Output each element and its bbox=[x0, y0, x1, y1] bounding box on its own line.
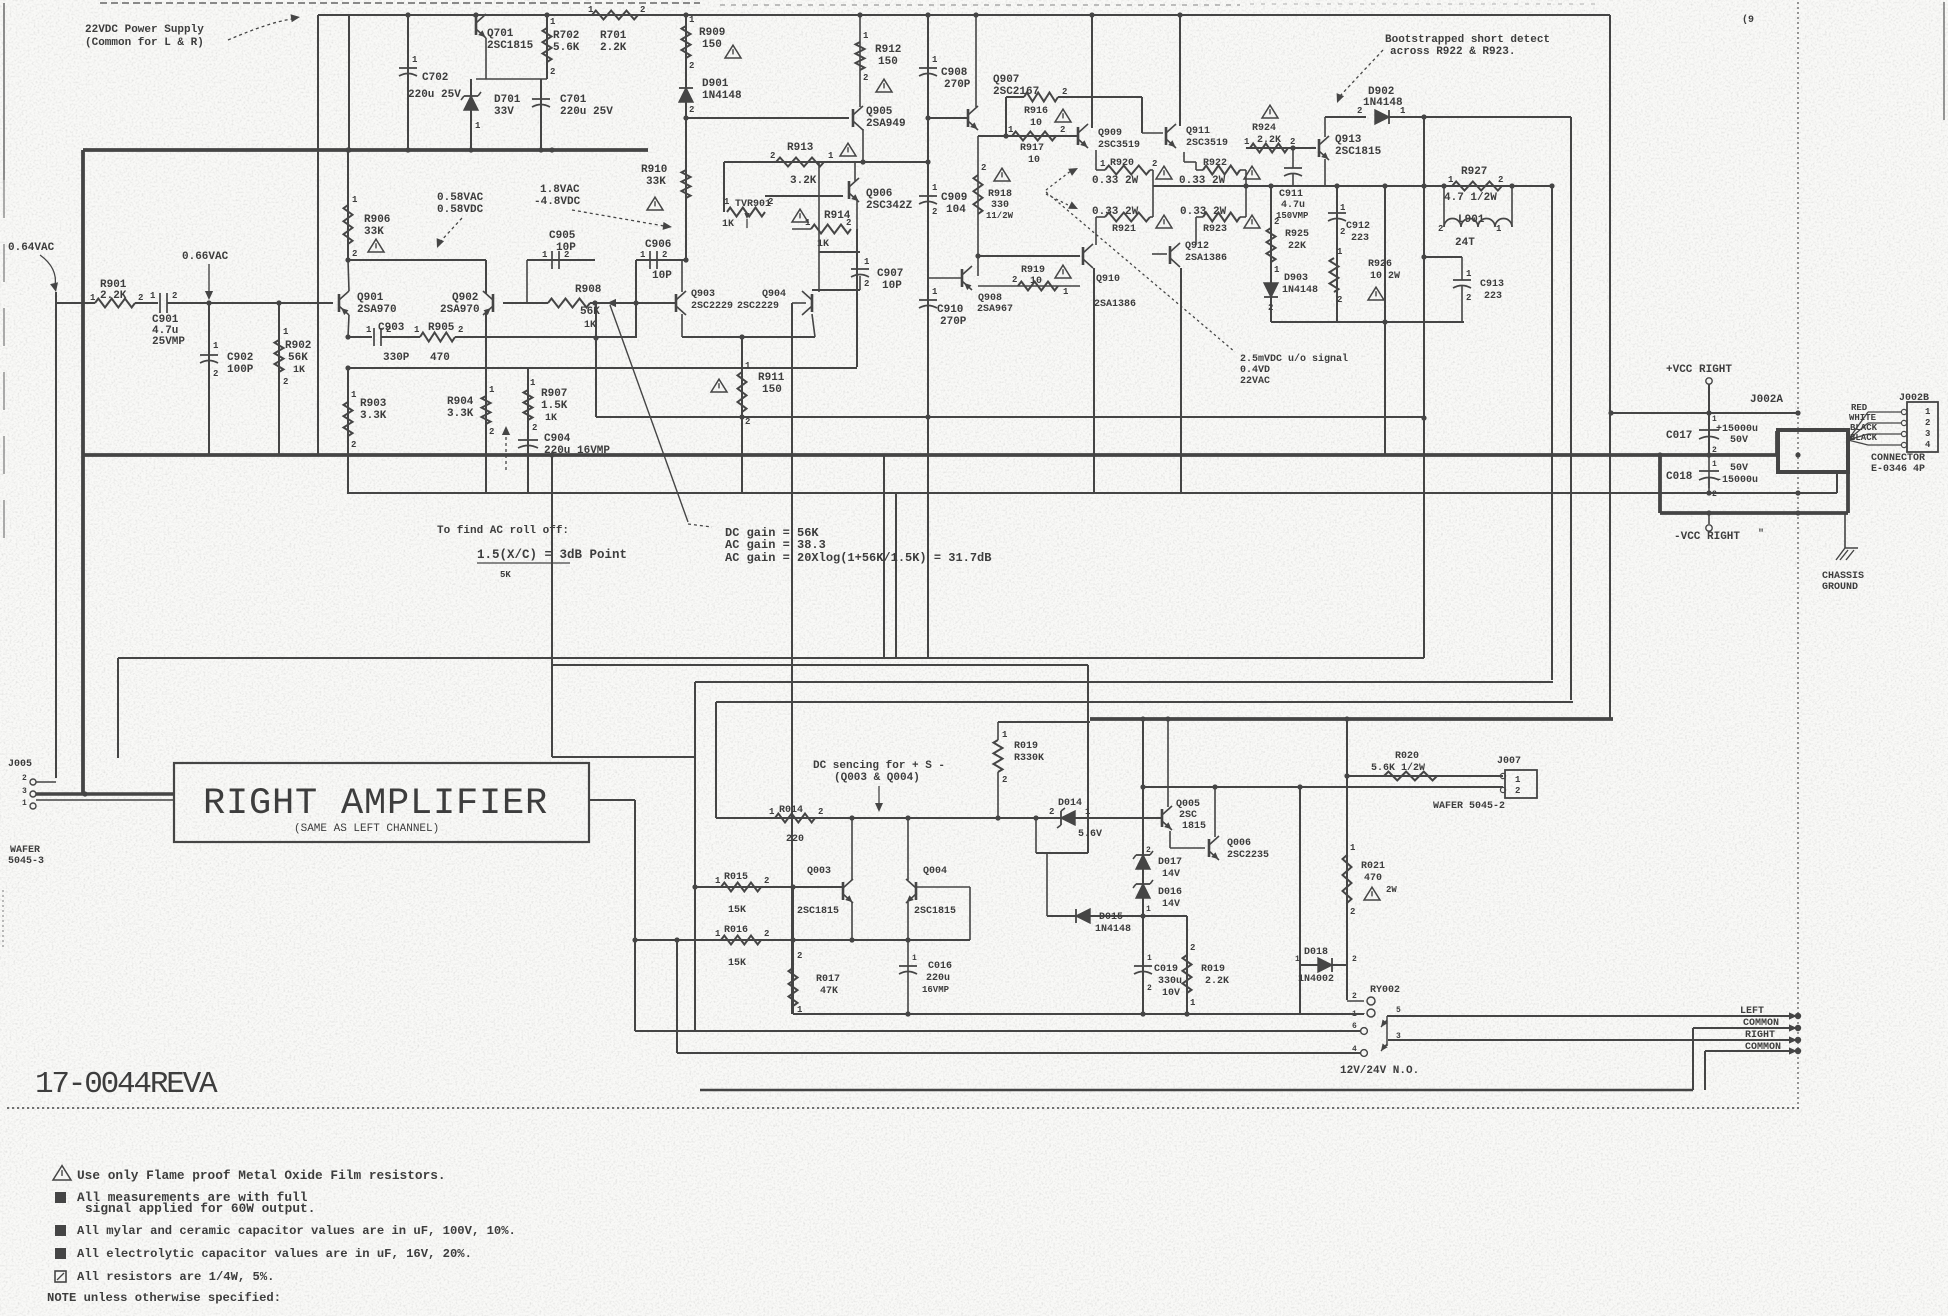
svg-text:104: 104 bbox=[946, 204, 966, 216]
svg-text:Q901: Q901 bbox=[357, 292, 384, 304]
svg-text:Q005: Q005 bbox=[1176, 799, 1200, 810]
svg-text:2: 2 bbox=[640, 5, 645, 15]
svg-text:C017: C017 bbox=[1666, 430, 1692, 442]
svg-text:NOTE unless otherwise specifie: NOTE unless otherwise specified: bbox=[47, 1291, 281, 1305]
svg-text:J002B: J002B bbox=[1899, 393, 1929, 404]
svg-text:Q909: Q909 bbox=[1098, 128, 1122, 139]
svg-text:1N4148: 1N4148 bbox=[1363, 97, 1403, 109]
svg-text:47K: 47K bbox=[820, 986, 838, 997]
svg-text:1: 1 bbox=[1295, 955, 1300, 964]
svg-text:C911: C911 bbox=[1279, 189, 1303, 200]
svg-text:2.5mVDC u/o signal: 2.5mVDC u/o signal bbox=[1240, 353, 1348, 365]
svg-text:+15000u: +15000u bbox=[1716, 424, 1758, 435]
svg-text:2SC2235: 2SC2235 bbox=[1227, 850, 1269, 861]
svg-text:2.2K: 2.2K bbox=[1205, 976, 1229, 987]
svg-text:1: 1 bbox=[864, 257, 870, 267]
svg-text:56K: 56K bbox=[288, 352, 308, 364]
svg-text:R016: R016 bbox=[724, 925, 748, 936]
svg-text:2SC2229: 2SC2229 bbox=[737, 301, 779, 312]
svg-text:1: 1 bbox=[1337, 247, 1343, 257]
svg-text:2: 2 bbox=[764, 929, 769, 939]
svg-text:0.58VDC: 0.58VDC bbox=[437, 204, 484, 216]
svg-text:1: 1 bbox=[1008, 125, 1014, 135]
svg-text:150: 150 bbox=[762, 384, 782, 396]
svg-text:1: 1 bbox=[412, 55, 418, 65]
svg-text:2: 2 bbox=[1438, 224, 1443, 234]
svg-text:LEFT: LEFT bbox=[1740, 1006, 1764, 1017]
svg-text:Q004: Q004 bbox=[923, 866, 947, 877]
svg-text:2SC1815: 2SC1815 bbox=[487, 40, 534, 52]
svg-text:2SC: 2SC bbox=[1179, 810, 1197, 821]
svg-text:10P: 10P bbox=[882, 280, 902, 292]
svg-text:2SA970: 2SA970 bbox=[440, 304, 480, 316]
svg-text:DC sencing for + S -: DC sencing for + S - bbox=[813, 760, 945, 772]
svg-text:2: 2 bbox=[1712, 446, 1717, 455]
svg-text:1: 1 bbox=[932, 183, 938, 193]
svg-text:2: 2 bbox=[1152, 159, 1157, 169]
svg-text:2: 2 bbox=[22, 774, 27, 783]
svg-text:-15000u: -15000u bbox=[1716, 475, 1758, 486]
svg-text:2: 2 bbox=[768, 197, 773, 207]
svg-text:To find AC roll off:: To find AC roll off: bbox=[437, 525, 569, 537]
svg-text:1: 1 bbox=[475, 121, 481, 131]
svg-text:3.3K: 3.3K bbox=[447, 408, 474, 420]
svg-text:-4.8VDC: -4.8VDC bbox=[534, 196, 581, 208]
svg-text:2: 2 bbox=[1268, 303, 1273, 313]
svg-text:1: 1 bbox=[1002, 730, 1008, 740]
svg-text:Q910: Q910 bbox=[1096, 274, 1120, 285]
svg-text:220u 25V: 220u 25V bbox=[408, 89, 461, 101]
svg-text:D017: D017 bbox=[1158, 857, 1182, 868]
svg-text:1: 1 bbox=[769, 807, 775, 817]
svg-text:Q911: Q911 bbox=[1186, 126, 1210, 137]
svg-text:220u 25V: 220u 25V bbox=[560, 106, 613, 118]
svg-text:1: 1 bbox=[1496, 224, 1502, 234]
svg-text:(Q003 & Q004): (Q003 & Q004) bbox=[834, 772, 920, 784]
svg-text:1: 1 bbox=[90, 293, 96, 303]
svg-text:2SC3519: 2SC3519 bbox=[1098, 140, 1140, 151]
svg-text:1: 1 bbox=[542, 250, 548, 260]
svg-text:Q907: Q907 bbox=[993, 74, 1019, 86]
svg-text:2: 2 bbox=[662, 250, 667, 260]
svg-text:1: 1 bbox=[1085, 807, 1091, 817]
svg-text:2: 2 bbox=[1498, 175, 1503, 185]
svg-text:2: 2 bbox=[1146, 846, 1151, 855]
svg-text:2: 2 bbox=[1147, 984, 1152, 993]
svg-text:WHITE: WHITE bbox=[1849, 413, 1877, 423]
svg-text:J005: J005 bbox=[8, 759, 32, 770]
svg-text:C701: C701 bbox=[560, 94, 587, 106]
svg-text:C908: C908 bbox=[941, 67, 968, 79]
svg-text:2: 2 bbox=[1060, 125, 1065, 135]
svg-text:1: 1 bbox=[1274, 265, 1280, 275]
svg-text:C907: C907 bbox=[877, 268, 903, 280]
svg-text:1: 1 bbox=[1712, 415, 1717, 424]
svg-text:TVR901: TVR901 bbox=[735, 199, 771, 210]
svg-text:2: 2 bbox=[351, 440, 356, 450]
svg-text:R904: R904 bbox=[447, 396, 474, 408]
svg-text:2: 2 bbox=[797, 951, 802, 961]
svg-text:2: 2 bbox=[864, 279, 869, 289]
svg-text:GROUND: GROUND bbox=[1822, 582, 1858, 593]
svg-text:COMMON: COMMON bbox=[1743, 1018, 1779, 1029]
svg-text:0.33 2W: 0.33 2W bbox=[1180, 206, 1227, 218]
svg-text:Q912: Q912 bbox=[1185, 241, 1209, 252]
svg-text:2: 2 bbox=[213, 369, 218, 379]
svg-text:2W: 2W bbox=[1386, 885, 1397, 895]
svg-text:150: 150 bbox=[878, 56, 898, 68]
svg-text:14V: 14V bbox=[1162, 899, 1180, 910]
svg-text:0.4VD: 0.4VD bbox=[1240, 365, 1270, 376]
svg-text:Q908: Q908 bbox=[978, 293, 1002, 304]
svg-text:56K: 56K bbox=[580, 306, 600, 318]
svg-text:1: 1 bbox=[863, 31, 869, 41]
svg-text:2: 2 bbox=[1337, 295, 1342, 305]
svg-text:1: 1 bbox=[1350, 843, 1356, 853]
svg-text:1: 1 bbox=[932, 55, 938, 65]
svg-text:2: 2 bbox=[1002, 775, 1007, 785]
svg-text:0.64VAC: 0.64VAC bbox=[8, 242, 55, 254]
svg-text:1.5K: 1.5K bbox=[541, 400, 568, 412]
svg-text:Use only Flame proof Metal Oxi: Use only Flame proof Metal Oxide Film re… bbox=[77, 1168, 446, 1183]
svg-text:4.7 1/2W: 4.7 1/2W bbox=[1444, 192, 1497, 204]
svg-text:1: 1 bbox=[1147, 954, 1152, 963]
svg-text:3: 3 bbox=[22, 787, 27, 796]
svg-text:signal applied for 60W output.: signal applied for 60W output. bbox=[85, 1201, 315, 1216]
svg-text:5.6V: 5.6V bbox=[1078, 829, 1102, 840]
svg-text:R920: R920 bbox=[1110, 158, 1134, 169]
svg-text:R913: R913 bbox=[787, 142, 814, 154]
svg-text:CHASSIS: CHASSIS bbox=[1822, 571, 1864, 582]
svg-text:1: 1 bbox=[828, 151, 834, 161]
svg-text:(SAME AS LEFT CHANNEL): (SAME AS LEFT CHANNEL) bbox=[294, 823, 439, 835]
svg-text:2SC342Z: 2SC342Z bbox=[866, 200, 913, 212]
svg-text:All mylar and ceramic capacito: All mylar and ceramic capacitor values a… bbox=[77, 1224, 516, 1238]
svg-text:220u: 220u bbox=[926, 973, 950, 984]
svg-text:10: 10 bbox=[1030, 276, 1042, 287]
svg-text:1: 1 bbox=[588, 5, 594, 15]
svg-text:15K: 15K bbox=[728, 958, 746, 969]
svg-text:2: 2 bbox=[981, 163, 986, 173]
svg-text:2SA970: 2SA970 bbox=[357, 304, 397, 316]
svg-text:Q006: Q006 bbox=[1227, 838, 1251, 849]
svg-text:1K: 1K bbox=[584, 320, 596, 331]
svg-text:1: 1 bbox=[1925, 407, 1931, 417]
svg-text:R701: R701 bbox=[600, 30, 627, 42]
svg-text:C018: C018 bbox=[1666, 471, 1693, 483]
svg-text:AC gain = 20Xlog(1+56K/1.5K) =: AC gain = 20Xlog(1+56K/1.5K) = 31.7dB bbox=[725, 551, 991, 565]
svg-text:R907: R907 bbox=[541, 388, 567, 400]
svg-text:R919: R919 bbox=[1021, 265, 1045, 276]
svg-text:C902: C902 bbox=[227, 352, 253, 364]
svg-text:2: 2 bbox=[352, 249, 357, 259]
svg-text:5: 5 bbox=[1396, 1006, 1401, 1015]
svg-text:3: 3 bbox=[1925, 429, 1930, 439]
svg-text:C702: C702 bbox=[422, 72, 448, 84]
svg-text:2: 2 bbox=[1466, 293, 1471, 303]
svg-text:R927: R927 bbox=[1461, 166, 1487, 178]
svg-text:1: 1 bbox=[366, 325, 372, 335]
svg-text:2: 2 bbox=[138, 293, 143, 303]
svg-text:": " bbox=[1758, 528, 1764, 540]
svg-text:R702: R702 bbox=[553, 30, 579, 42]
svg-text:330u: 330u bbox=[1158, 976, 1182, 987]
svg-text:2: 2 bbox=[1515, 786, 1520, 796]
svg-text:R015: R015 bbox=[724, 872, 748, 883]
svg-text:R905: R905 bbox=[428, 322, 455, 334]
svg-text:1: 1 bbox=[932, 287, 938, 297]
svg-text:R916: R916 bbox=[1024, 106, 1048, 117]
svg-text:2: 2 bbox=[1925, 418, 1930, 428]
svg-text:1815: 1815 bbox=[1182, 821, 1206, 832]
svg-text:10V: 10V bbox=[1162, 988, 1180, 999]
svg-text:2: 2 bbox=[1012, 275, 1017, 285]
svg-text:2SC1815: 2SC1815 bbox=[914, 906, 956, 917]
svg-text:10: 10 bbox=[1030, 118, 1042, 129]
svg-text:C906: C906 bbox=[645, 239, 671, 251]
svg-text:100P: 100P bbox=[227, 364, 254, 376]
svg-text:R330K: R330K bbox=[1014, 753, 1044, 764]
svg-text:J002A: J002A bbox=[1750, 394, 1783, 406]
svg-text:R921: R921 bbox=[1112, 224, 1136, 235]
svg-text:2: 2 bbox=[1352, 992, 1357, 1001]
svg-text:1: 1 bbox=[414, 325, 420, 335]
svg-text:223: 223 bbox=[1351, 233, 1369, 244]
svg-text:2: 2 bbox=[1190, 943, 1195, 953]
svg-text:(Common for L & R): (Common for L & R) bbox=[85, 37, 204, 49]
svg-text:AC gain = 38.3: AC gain = 38.3 bbox=[725, 538, 826, 552]
svg-text:5.6K: 5.6K bbox=[553, 42, 580, 54]
svg-text:22VAC: 22VAC bbox=[1240, 376, 1270, 387]
svg-text:11/2W: 11/2W bbox=[986, 211, 1014, 221]
svg-text:2: 2 bbox=[1274, 217, 1279, 227]
svg-text:R917: R917 bbox=[1020, 143, 1044, 154]
svg-text:2.2K: 2.2K bbox=[1257, 135, 1281, 146]
svg-text:2SC2229: 2SC2229 bbox=[691, 301, 733, 312]
svg-text:RED: RED bbox=[1851, 403, 1868, 413]
svg-text:270P: 270P bbox=[940, 316, 967, 328]
svg-text:R903: R903 bbox=[360, 398, 387, 410]
svg-text:R908: R908 bbox=[575, 284, 602, 296]
svg-text:2: 2 bbox=[564, 250, 569, 260]
svg-text:1: 1 bbox=[489, 385, 495, 395]
svg-text:Q902: Q902 bbox=[452, 292, 478, 304]
svg-text:2: 2 bbox=[1712, 490, 1717, 499]
svg-text:2SC3519: 2SC3519 bbox=[1186, 138, 1228, 149]
svg-text:2SA1386: 2SA1386 bbox=[1185, 253, 1227, 264]
svg-text:2: 2 bbox=[1350, 907, 1355, 917]
svg-text:J007: J007 bbox=[1497, 756, 1521, 767]
svg-text:24T: 24T bbox=[1455, 237, 1475, 249]
svg-text:Q003: Q003 bbox=[807, 866, 831, 877]
svg-text:Bootstrapped short detect: Bootstrapped short detect bbox=[1385, 34, 1550, 46]
svg-text:All resistors are 1/4W, 5%.: All resistors are 1/4W, 5%. bbox=[77, 1270, 274, 1284]
svg-text:BLACK: BLACK bbox=[1850, 433, 1878, 443]
svg-text:1.5(X/C) = 3dB Point: 1.5(X/C) = 3dB Point bbox=[477, 548, 627, 562]
svg-text:2SC1815: 2SC1815 bbox=[1335, 146, 1382, 158]
svg-text:R923: R923 bbox=[1203, 224, 1227, 235]
svg-text:33K: 33K bbox=[364, 226, 384, 238]
svg-text:2: 2 bbox=[1357, 106, 1362, 116]
svg-text:2: 2 bbox=[689, 105, 694, 115]
svg-text:330P: 330P bbox=[383, 352, 410, 364]
svg-text:D015: D015 bbox=[1099, 912, 1123, 923]
svg-text:R017: R017 bbox=[816, 974, 840, 985]
svg-text:1: 1 bbox=[213, 341, 219, 351]
svg-text:R020: R020 bbox=[1395, 751, 1419, 762]
svg-text:12V/24V N.O.: 12V/24V N.O. bbox=[1340, 1065, 1419, 1077]
svg-text:2SA949: 2SA949 bbox=[866, 118, 906, 130]
svg-text:COMMON: COMMON bbox=[1745, 1042, 1781, 1053]
svg-text:1: 1 bbox=[640, 250, 646, 260]
svg-text:0.33 2W: 0.33 2W bbox=[1092, 175, 1139, 187]
svg-text:17-0044REVA: 17-0044REVA bbox=[35, 1067, 218, 1102]
svg-text:1: 1 bbox=[351, 390, 357, 400]
svg-text:across R922 & R923.: across R922 & R923. bbox=[1390, 46, 1515, 58]
svg-text:1: 1 bbox=[1190, 998, 1196, 1008]
svg-text:10P: 10P bbox=[652, 270, 672, 282]
svg-text:1N4148: 1N4148 bbox=[1095, 924, 1131, 935]
svg-text:2: 2 bbox=[283, 377, 288, 387]
svg-text:Q903: Q903 bbox=[691, 289, 715, 300]
svg-text:2SA1386: 2SA1386 bbox=[1094, 299, 1136, 310]
svg-text:RIGHT: RIGHT bbox=[1745, 1030, 1775, 1041]
svg-text:2: 2 bbox=[458, 325, 463, 335]
svg-text:2: 2 bbox=[745, 417, 750, 427]
svg-text:-VCC RIGHT: -VCC RIGHT bbox=[1674, 531, 1740, 543]
svg-text:3.3K: 3.3K bbox=[360, 410, 387, 422]
svg-text:R019: R019 bbox=[1201, 964, 1225, 975]
svg-text:D018: D018 bbox=[1304, 947, 1328, 958]
svg-text:2: 2 bbox=[532, 423, 537, 433]
svg-text:C913: C913 bbox=[1480, 279, 1504, 290]
svg-text:1: 1 bbox=[689, 15, 695, 25]
svg-text:1: 1 bbox=[1146, 905, 1151, 914]
svg-text:(9: (9 bbox=[1742, 14, 1754, 26]
svg-text:WAFER 5045-2: WAFER 5045-2 bbox=[1433, 801, 1505, 812]
svg-text:5045-3: 5045-3 bbox=[8, 856, 44, 867]
svg-text:Q904: Q904 bbox=[762, 289, 786, 300]
svg-text:R911: R911 bbox=[758, 372, 785, 384]
svg-text:0.58VAC: 0.58VAC bbox=[437, 192, 484, 204]
svg-text:2: 2 bbox=[818, 807, 823, 817]
svg-text:6: 6 bbox=[1352, 1022, 1357, 1031]
svg-text:470: 470 bbox=[1364, 873, 1382, 884]
svg-text:1: 1 bbox=[715, 929, 721, 939]
svg-text:C904: C904 bbox=[544, 433, 571, 445]
svg-text:2: 2 bbox=[1062, 87, 1067, 97]
svg-text:4.7u: 4.7u bbox=[1281, 200, 1305, 211]
svg-text:220: 220 bbox=[786, 834, 804, 845]
svg-text:0.66VAC: 0.66VAC bbox=[182, 251, 229, 263]
svg-text:15K: 15K bbox=[728, 905, 746, 916]
svg-text:1K: 1K bbox=[293, 365, 305, 376]
svg-text:0.33 2W: 0.33 2W bbox=[1092, 206, 1139, 218]
svg-text:33K: 33K bbox=[646, 176, 666, 188]
svg-text:1N4148: 1N4148 bbox=[702, 90, 742, 102]
svg-text:1: 1 bbox=[715, 876, 721, 886]
svg-text:C909: C909 bbox=[941, 192, 967, 204]
svg-text:R925: R925 bbox=[1285, 229, 1309, 240]
svg-text:2.2K: 2.2K bbox=[600, 42, 627, 54]
svg-text:1: 1 bbox=[1466, 269, 1472, 279]
svg-text:10: 10 bbox=[1028, 155, 1040, 166]
svg-text:+VCC RIGHT: +VCC RIGHT bbox=[1666, 364, 1732, 376]
svg-text:D014: D014 bbox=[1058, 798, 1082, 809]
svg-text:2: 2 bbox=[1049, 807, 1054, 817]
svg-text:33V: 33V bbox=[494, 106, 514, 118]
svg-text:16VMP: 16VMP bbox=[922, 985, 950, 995]
svg-text:2: 2 bbox=[550, 67, 555, 77]
svg-text:1: 1 bbox=[150, 291, 156, 301]
svg-text:RIGHT AMPLIFIER: RIGHT AMPLIFIER bbox=[203, 783, 548, 825]
svg-text:25VMP: 25VMP bbox=[152, 336, 185, 348]
svg-text:D016: D016 bbox=[1158, 887, 1182, 898]
svg-text:5K: 5K bbox=[500, 570, 511, 580]
svg-text:D903: D903 bbox=[1284, 273, 1308, 284]
svg-text:WAFER: WAFER bbox=[10, 845, 40, 856]
svg-text:R014: R014 bbox=[779, 805, 803, 816]
svg-text:Q913: Q913 bbox=[1335, 134, 1362, 146]
svg-text:1N4002: 1N4002 bbox=[1298, 974, 1334, 985]
svg-text:50V: 50V bbox=[1730, 435, 1748, 446]
svg-text:D701: D701 bbox=[494, 94, 521, 106]
svg-text:1.8VAC: 1.8VAC bbox=[540, 184, 580, 196]
svg-text:Q701: Q701 bbox=[487, 28, 514, 40]
svg-text:R910: R910 bbox=[641, 164, 667, 176]
svg-text:1: 1 bbox=[724, 197, 730, 207]
svg-text:R019: R019 bbox=[1014, 741, 1038, 752]
svg-text:22K: 22K bbox=[1288, 241, 1306, 252]
svg-text:R906: R906 bbox=[364, 214, 390, 226]
svg-text:1: 1 bbox=[1448, 175, 1454, 185]
svg-text:4: 4 bbox=[1925, 440, 1931, 450]
svg-text:2.2K: 2.2K bbox=[100, 290, 127, 302]
svg-text:1: 1 bbox=[283, 327, 289, 337]
svg-text:270P: 270P bbox=[944, 79, 971, 91]
svg-text:1K: 1K bbox=[545, 413, 557, 424]
svg-text:2: 2 bbox=[1352, 955, 1357, 964]
svg-text:R926: R926 bbox=[1368, 259, 1392, 270]
svg-text:All electrolytic capacitor val: All electrolytic capacitor values are in… bbox=[77, 1247, 472, 1261]
svg-text:2: 2 bbox=[932, 207, 937, 217]
svg-text:2: 2 bbox=[863, 73, 868, 83]
svg-text:C016: C016 bbox=[928, 961, 952, 972]
svg-text:1: 1 bbox=[745, 361, 751, 371]
svg-text:2: 2 bbox=[172, 291, 177, 301]
svg-text:470: 470 bbox=[430, 352, 450, 364]
svg-text:R021: R021 bbox=[1361, 861, 1385, 872]
svg-text:2: 2 bbox=[1340, 227, 1345, 237]
svg-text:C019: C019 bbox=[1154, 964, 1178, 975]
svg-text:150: 150 bbox=[702, 39, 722, 51]
svg-text:1: 1 bbox=[1063, 287, 1069, 297]
svg-text:2: 2 bbox=[689, 61, 694, 71]
svg-text:1: 1 bbox=[912, 954, 917, 963]
svg-text:RY002: RY002 bbox=[1370, 985, 1400, 996]
svg-text:2: 2 bbox=[386, 325, 391, 335]
svg-text:R909: R909 bbox=[699, 27, 725, 39]
svg-text:1: 1 bbox=[352, 195, 358, 205]
svg-text:223: 223 bbox=[1484, 291, 1502, 302]
svg-text:1: 1 bbox=[530, 378, 536, 388]
svg-text:330: 330 bbox=[991, 200, 1009, 211]
svg-text:R912: R912 bbox=[875, 44, 901, 56]
svg-text:R918: R918 bbox=[988, 189, 1012, 200]
svg-text:1: 1 bbox=[550, 17, 556, 27]
svg-text:2: 2 bbox=[846, 218, 851, 228]
svg-text:1: 1 bbox=[1340, 203, 1346, 213]
